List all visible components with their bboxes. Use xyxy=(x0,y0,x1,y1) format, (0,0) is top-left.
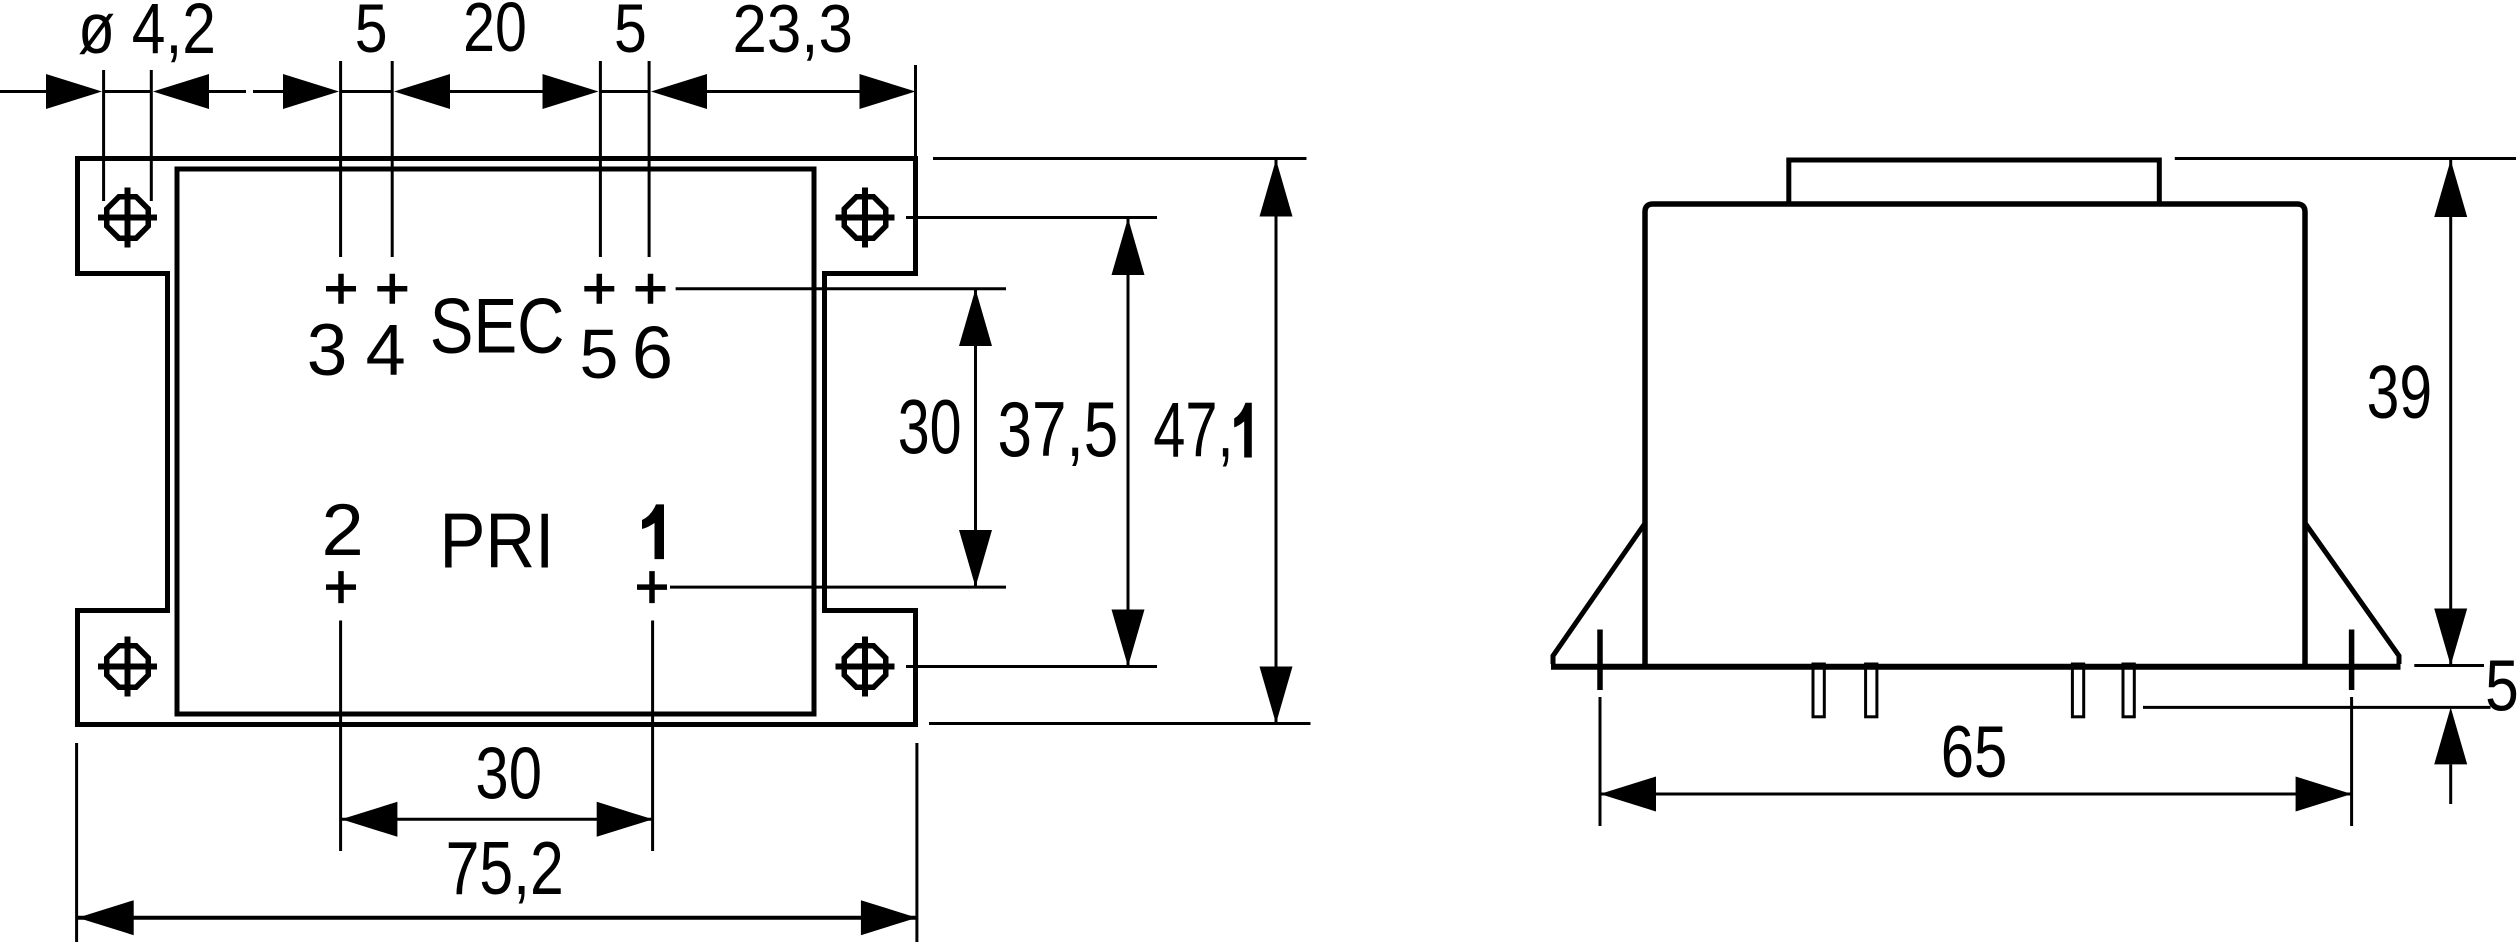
svg-text:SEC: SEC xyxy=(430,283,565,370)
svg-text:30: 30 xyxy=(898,385,962,470)
svg-text:37,5: 37,5 xyxy=(998,385,1119,472)
svg-text:20: 20 xyxy=(463,0,527,66)
svg-text:6: 6 xyxy=(632,311,673,394)
svg-text:PRI: PRI xyxy=(440,496,555,584)
svg-text:5: 5 xyxy=(614,0,647,67)
svg-text:75,2: 75,2 xyxy=(446,827,564,911)
svg-text:65: 65 xyxy=(1941,713,2008,794)
svg-text:3: 3 xyxy=(307,310,348,391)
svg-text:5: 5 xyxy=(2485,647,2519,727)
svg-text:5: 5 xyxy=(580,315,619,393)
svg-text:47,: 47, xyxy=(1153,386,1233,474)
svg-text:30: 30 xyxy=(475,734,542,815)
svg-text:2: 2 xyxy=(321,489,363,570)
svg-text:ø 4,2: ø 4,2 xyxy=(78,0,216,68)
svg-text:39: 39 xyxy=(2367,351,2432,434)
svg-text:4: 4 xyxy=(366,311,406,391)
svg-text:5: 5 xyxy=(355,0,388,67)
svg-text:23,3: 23,3 xyxy=(732,0,852,67)
